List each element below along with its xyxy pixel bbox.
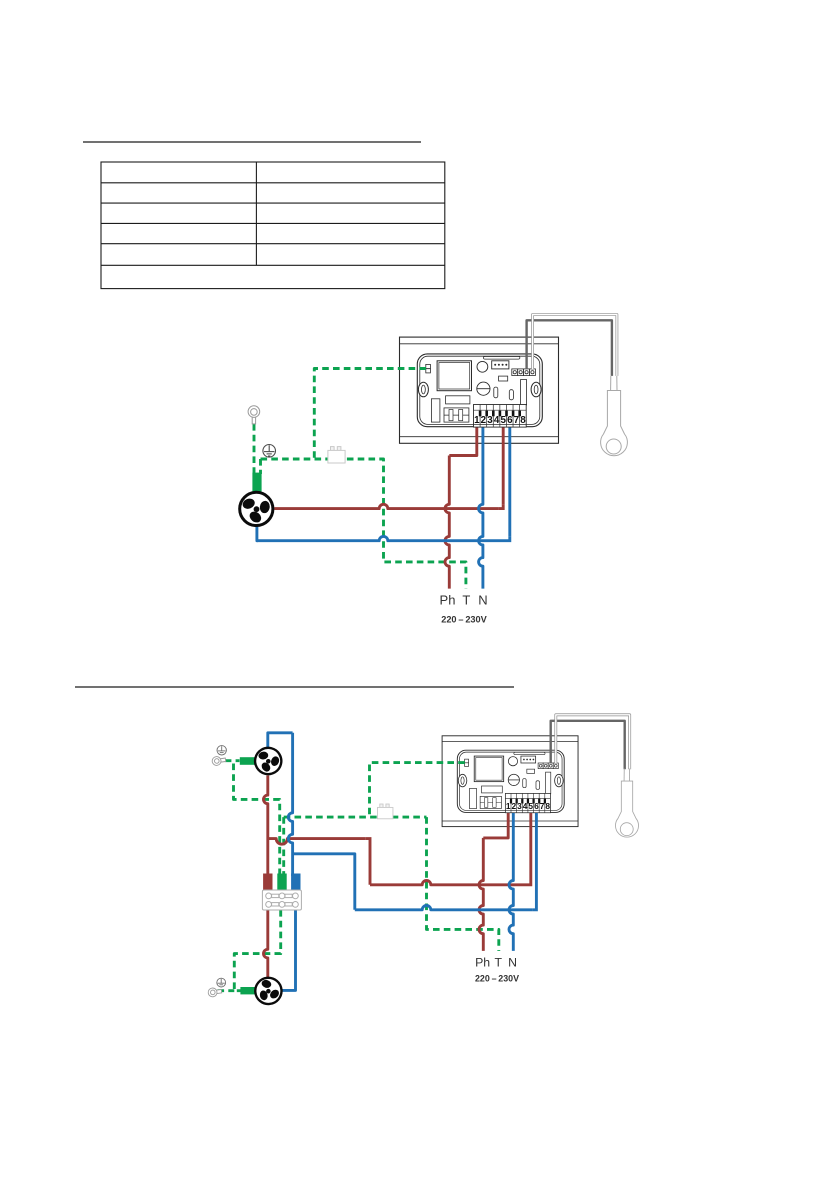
svg-text:220 – 230V: 220 – 230V [475, 974, 519, 984]
wire: earth junction box to fan 3 [234, 910, 280, 991]
wire: earth bus horizontal (long) [284, 816, 427, 819]
wire: phase supply Ph controller 2 [483, 813, 508, 838]
svg-text:N: N [508, 956, 517, 970]
blue sleeve into junction box [291, 874, 300, 891]
wire: earth fan 3 lug link [218, 989, 235, 992]
specifications table [101, 162, 445, 289]
wire: neutral bus to controller 2 [293, 854, 355, 910]
wire: neutral N from terminal 2 down [479, 428, 483, 589]
svg-text:T: T [462, 593, 470, 608]
wire: neutral N supply controller 2 [509, 813, 513, 951]
svg-text:Ph: Ph [440, 593, 456, 608]
wire: live junction box to fan 3 [263, 910, 267, 978]
wire: live fan 2 drop [263, 776, 267, 877]
controller U1 [400, 337, 559, 443]
wire: earth fan 2 lug link [225, 759, 240, 762]
junction terminal box [262, 890, 301, 910]
sensor cable 2 wire A (dark) [551, 721, 625, 769]
fan M1 [240, 492, 273, 525]
wire: live bus fan2/box to controller 2 [268, 839, 366, 845]
wire: earth bus horizontal / down / to T terminal [261, 459, 466, 589]
wire: earth lug drop to fan 1 [253, 424, 256, 474]
heading rule 2 [75, 686, 514, 688]
earth ring lug (fan 2) [212, 755, 226, 766]
ground symbol (fan 1) [263, 445, 276, 458]
wire: phase supply Ph from terminal 1 down [449, 428, 477, 456]
temperature probe ring terminal [601, 376, 628, 456]
svg-text:Ph: Ph [475, 956, 490, 970]
ground symbol (fan 3) [217, 978, 226, 987]
ground symbol (fan 2) [217, 746, 226, 755]
sensor cable wire B (light) [533, 315, 617, 376]
wire: neutral from controller terminal 6 to fan 1 [508, 428, 511, 537]
red sleeve into junction box [263, 874, 272, 891]
wire: earth dashed from controller 2 [370, 763, 465, 818]
svg-text:N: N [478, 593, 487, 608]
earth ring lug (fan 1) [248, 406, 260, 424]
earth ring lug (fan 3) [208, 987, 222, 998]
earth sleeve into junction box [277, 874, 286, 891]
wire: earth drop to fan 1 [259, 459, 262, 474]
earth wire sleeve at fan 2 [240, 757, 255, 765]
earth wire sleeve at fan 3 [240, 987, 255, 994]
heading rule 1 [83, 141, 421, 143]
controller U2 [442, 736, 578, 827]
sensor cable wire A (dark) [527, 320, 612, 376]
wire: earth bus left drop to junction box [282, 817, 285, 876]
svg-text:T: T [495, 956, 503, 970]
wire: live from controller terminal 5 to fan 1 [502, 428, 505, 505]
svg-text:220 – 230V: 220 – 230V [441, 615, 487, 625]
wire: earth dashed from controller 1 to earth bus [314, 369, 426, 460]
fan M2 [252, 745, 284, 777]
earth wire sleeve at fan 1 [252, 473, 261, 492]
inline connector plug 2 [377, 804, 392, 819]
wire: earth fan 2 to junction box [234, 764, 280, 877]
wire: neutral fan 2 riser over top [268, 733, 293, 749]
temperature probe 2 [615, 769, 638, 838]
fan M3 [250, 972, 287, 1009]
wire: neutral junction box to fan 3 [282, 910, 296, 990]
wire: earth right drop to T terminal [427, 817, 499, 951]
inline connector plug [328, 447, 345, 463]
wire: neutral fan 1 riser [257, 526, 258, 541]
sensor cable 2 wire B (light) [556, 715, 630, 769]
